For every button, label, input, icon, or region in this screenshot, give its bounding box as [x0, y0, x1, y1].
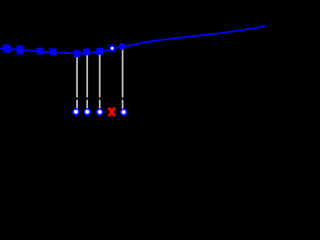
red X marker: [109, 108, 115, 116]
notch col1: [76, 97, 78, 99]
data square 2a: [16, 46, 23, 53]
bottom dot col1: [72, 108, 80, 116]
model curve: [0, 26, 265, 53]
data square 1b: [4, 46, 11, 53]
notch col4: [121, 97, 123, 99]
drop line col1: [76, 54, 78, 110]
bottom dot col2: [83, 108, 91, 116]
data square 1a: [3, 44, 10, 51]
drop line col3: [99, 52, 101, 110]
bottom dot col4: [120, 108, 128, 116]
notch col2: [86, 97, 88, 99]
data square 2b: [17, 48, 24, 55]
current-point square with white core: [109, 45, 116, 52]
data square 4: [50, 48, 57, 55]
drop line col4: [122, 47, 124, 110]
bottom dot col3: [96, 108, 104, 116]
notch col3: [99, 97, 101, 99]
data square 6: [83, 49, 90, 56]
round marker col4: [119, 43, 126, 50]
data square 3: [37, 48, 44, 55]
drop line col2: [86, 53, 88, 110]
data square 5: [74, 50, 81, 57]
data square 7: [96, 48, 103, 55]
